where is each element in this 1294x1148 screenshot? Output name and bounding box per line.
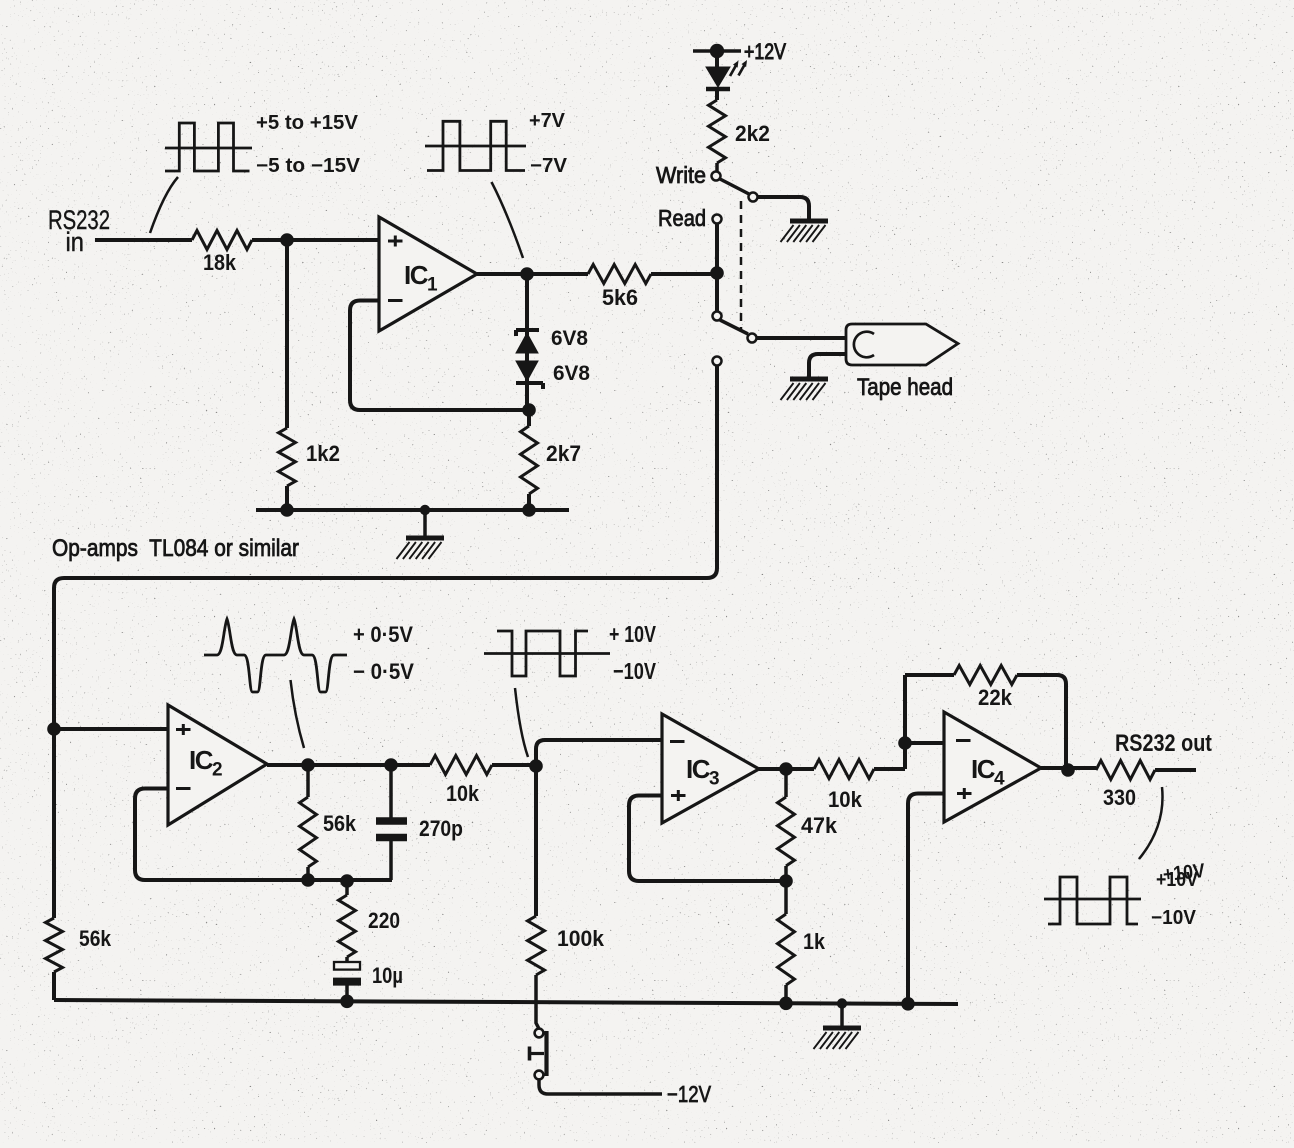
svg-text:22k: 22k — [978, 686, 1012, 710]
ground rail top — [256, 508, 569, 512]
pointer curve spikes to IC2 out — [291, 680, 305, 748]
ground symbol top rail — [397, 510, 445, 559]
svg-text:330: 330 — [1103, 786, 1136, 810]
node rail-2k7 — [522, 503, 536, 517]
node fb rail 220 — [340, 874, 354, 888]
label Tape head — [857, 374, 953, 401]
wire to IC2 + — [54, 727, 168, 731]
wire RS232 input — [95, 238, 192, 242]
node J6 IC3 input — [529, 759, 543, 773]
svg-text:47k: 47k — [801, 814, 837, 838]
label RS232 out — [1115, 730, 1212, 757]
pointer curve waveform2 to IC1 output — [492, 182, 524, 258]
label Read — [658, 205, 706, 232]
waveform +5 to +15V square — [165, 111, 360, 176]
switch Read pole — [713, 312, 757, 343]
wire J1 down to 1k2 — [285, 240, 289, 428]
svg-text:10µ: 10µ — [372, 964, 403, 988]
switch Write pole — [712, 172, 758, 202]
node rail 10u — [340, 995, 354, 1009]
node J3 read junction — [710, 266, 724, 280]
resistor 2k2 — [709, 100, 771, 171]
wire IC1 - feedback — [350, 301, 529, 411]
resistor 22k feedback — [905, 666, 1066, 771]
wire IC2 output — [267, 763, 430, 767]
wire write to ground — [758, 197, 809, 219]
svg-text:6V8: 6V8 — [553, 362, 590, 385]
svg-text:Op-amps TL084 or similar: Op-amps TL084 or similar — [52, 535, 299, 562]
node IC3 out — [779, 762, 793, 776]
resistor 2k7 — [521, 410, 582, 510]
svg-text:−10V: −10V — [613, 658, 656, 685]
svg-text:Read: Read — [658, 205, 706, 232]
svg-text:+10V: +10V — [1162, 859, 1206, 886]
svg-text:RS232 out: RS232 out — [1115, 730, 1212, 757]
resistor 5k6 — [588, 265, 651, 311]
node IC2 out-56k — [301, 758, 315, 772]
svg-text:− 0·5V: − 0·5V — [353, 660, 414, 684]
svg-text:+12V: +12V — [744, 40, 786, 64]
op-amp IC4 — [944, 712, 1041, 822]
node J2 IC1 output — [520, 267, 534, 281]
wire to IC4 - — [905, 741, 944, 745]
wire IC3 output — [759, 767, 814, 771]
wire 1k2 to ground rail — [285, 486, 289, 510]
resistor 56k feedback — [300, 765, 357, 880]
label RS232 in — [48, 206, 110, 258]
wire push button to -12V — [539, 1080, 712, 1107]
svg-text:270p: 270p — [419, 817, 463, 841]
waveform spikes 0.5V — [204, 619, 414, 692]
waveform +10V square inverted — [484, 621, 657, 685]
waveform output 10V square — [1044, 859, 1206, 928]
svg-text:+ 10V: + 10V — [609, 621, 656, 648]
node rail-1k2 — [280, 503, 294, 517]
svg-text:2k2: 2k2 — [735, 122, 770, 146]
pointer curve wave3 to J6 — [515, 688, 528, 757]
svg-text:2k7: 2k7 — [546, 442, 581, 466]
svg-text:−10V: −10V — [1151, 906, 1196, 928]
long wire to IC2 section — [54, 366, 717, 1000]
node IC4 out — [1061, 763, 1075, 777]
node J9 rail IC4+ — [901, 997, 915, 1011]
svg-text:18k: 18k — [203, 251, 236, 275]
svg-text:56k: 56k — [79, 927, 111, 951]
op-amp IC1 — [379, 217, 477, 331]
wire IC4 + to rail — [908, 794, 944, 1004]
svg-text:−12V: −12V — [667, 1081, 711, 1108]
resistor 1k divider — [778, 881, 826, 1003]
wire 18k to IC1 + — [252, 238, 379, 242]
svg-text:1k2: 1k2 — [306, 442, 340, 466]
node J1 input divider — [280, 233, 294, 247]
label op-amps TL084 — [52, 535, 299, 562]
wire tape head to ground — [809, 354, 846, 377]
node J8 rail 1k — [779, 997, 793, 1011]
resistor 100k — [528, 766, 605, 1028]
wire 5k6 to read node — [651, 272, 717, 276]
ground symbol tape head — [781, 379, 829, 400]
svg-text:Tape head: Tape head — [857, 374, 953, 401]
svg-text:in: in — [66, 228, 84, 258]
wire read contact down — [715, 224, 719, 311]
wire zener chain — [525, 274, 529, 410]
wire J6 to IC3 - — [536, 740, 662, 766]
ground symbol write — [781, 221, 829, 242]
resistor 1k2 — [279, 428, 340, 486]
wire IC4 - node — [903, 675, 907, 769]
svg-text:−7V: −7V — [530, 154, 567, 176]
dashed switch link — [740, 201, 743, 332]
+12V supply — [693, 40, 786, 64]
node IC4 - junction — [898, 736, 912, 750]
capacitor 10u electrolytic — [333, 957, 403, 1001]
svg-text:56k: 56k — [323, 812, 356, 836]
svg-text:6V8: 6V8 — [551, 327, 588, 350]
switch Read top contact — [713, 215, 722, 224]
svg-text:100k: 100k — [557, 927, 604, 951]
zener D2 6V8 — [516, 361, 590, 389]
svg-text:−5 to −15V: −5 to −15V — [256, 154, 360, 176]
wire IC2 - feedback — [135, 789, 392, 881]
node rail-centre — [420, 505, 430, 515]
LED — [706, 51, 747, 100]
svg-text:5k6: 5k6 — [602, 286, 638, 310]
label Write — [656, 162, 706, 189]
resistor 47k — [778, 769, 838, 881]
svg-text:Write: Write — [656, 162, 706, 189]
pointer curve waveform1 to input wire — [150, 177, 178, 233]
capacitor 270p — [376, 765, 463, 880]
node J5 IC2 input — [47, 722, 61, 736]
svg-text:+ 0·5V: + 0·5V — [353, 623, 413, 647]
resistor 10k first — [430, 756, 536, 807]
zener D1 6V8 — [516, 327, 588, 353]
tape head — [846, 324, 958, 365]
wire switch to tape head — [757, 336, 846, 340]
resistor 220 — [339, 881, 401, 957]
svg-text:1k: 1k — [803, 930, 825, 954]
bottom rail 0V — [54, 1000, 958, 1004]
switch lower contact to amp — [713, 357, 722, 366]
push button — [530, 1029, 547, 1080]
svg-text:10k: 10k — [828, 788, 862, 812]
op-amp IC2 — [168, 705, 267, 825]
waveform +7V square — [425, 109, 567, 176]
resistor 10k second — [814, 760, 905, 813]
svg-text:220: 220 — [368, 909, 400, 933]
svg-text:+5 to +15V: +5 to +15V — [256, 111, 358, 133]
node rail gnd — [837, 998, 847, 1008]
node IC2 out-270p — [384, 758, 398, 772]
wire IC4 output — [1041, 766, 1096, 770]
resistor 330 — [1096, 761, 1196, 811]
node fb rail 56k — [301, 873, 315, 887]
resistor 56k left — [46, 918, 112, 972]
wire IC3 + to divider — [629, 796, 786, 882]
svg-text:+7V: +7V — [529, 109, 565, 131]
node J7 divider — [779, 874, 793, 888]
op-amp IC3 — [662, 714, 759, 823]
node J4 zener bottom — [522, 403, 536, 417]
resistor 18k — [192, 231, 252, 276]
wire IC1 output — [477, 272, 588, 276]
ground symbol bottom rail — [814, 1004, 862, 1050]
svg-text:10k: 10k — [446, 782, 479, 806]
pointer curve out to waveform — [1139, 787, 1163, 859]
